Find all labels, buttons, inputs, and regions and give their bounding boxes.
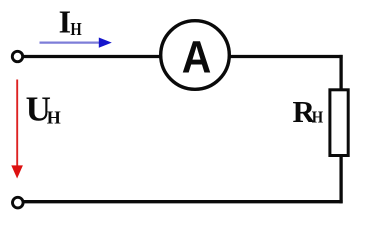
label I_H [59,4,82,40]
wire top horizontal (terminal to ammeter) [22,55,160,58]
current arrow I_H (blue) [40,38,112,48]
wire bottom horizontal [23,200,343,203]
ammeter label A [182,33,212,83]
label U_H [26,90,61,129]
svg-text:Н: Н [312,109,324,127]
terminal top-left [12,51,22,61]
voltage arrow U_H (red) [11,80,23,179]
ammeter U1 circle [161,21,230,90]
svg-text:Н: Н [70,18,82,39]
svg-text:A: A [182,33,212,83]
svg-text:I: I [59,4,71,40]
wire right vertical (resistor bottom to corner) [339,156,342,203]
wire top horizontal (ammeter to corner) [230,55,343,58]
wire right vertical (corner to resistor top) [339,55,342,90]
svg-text:Н: Н [47,107,61,127]
terminal bottom-left [12,197,23,208]
resistor R_H body [330,90,348,156]
label R_H [293,94,324,129]
